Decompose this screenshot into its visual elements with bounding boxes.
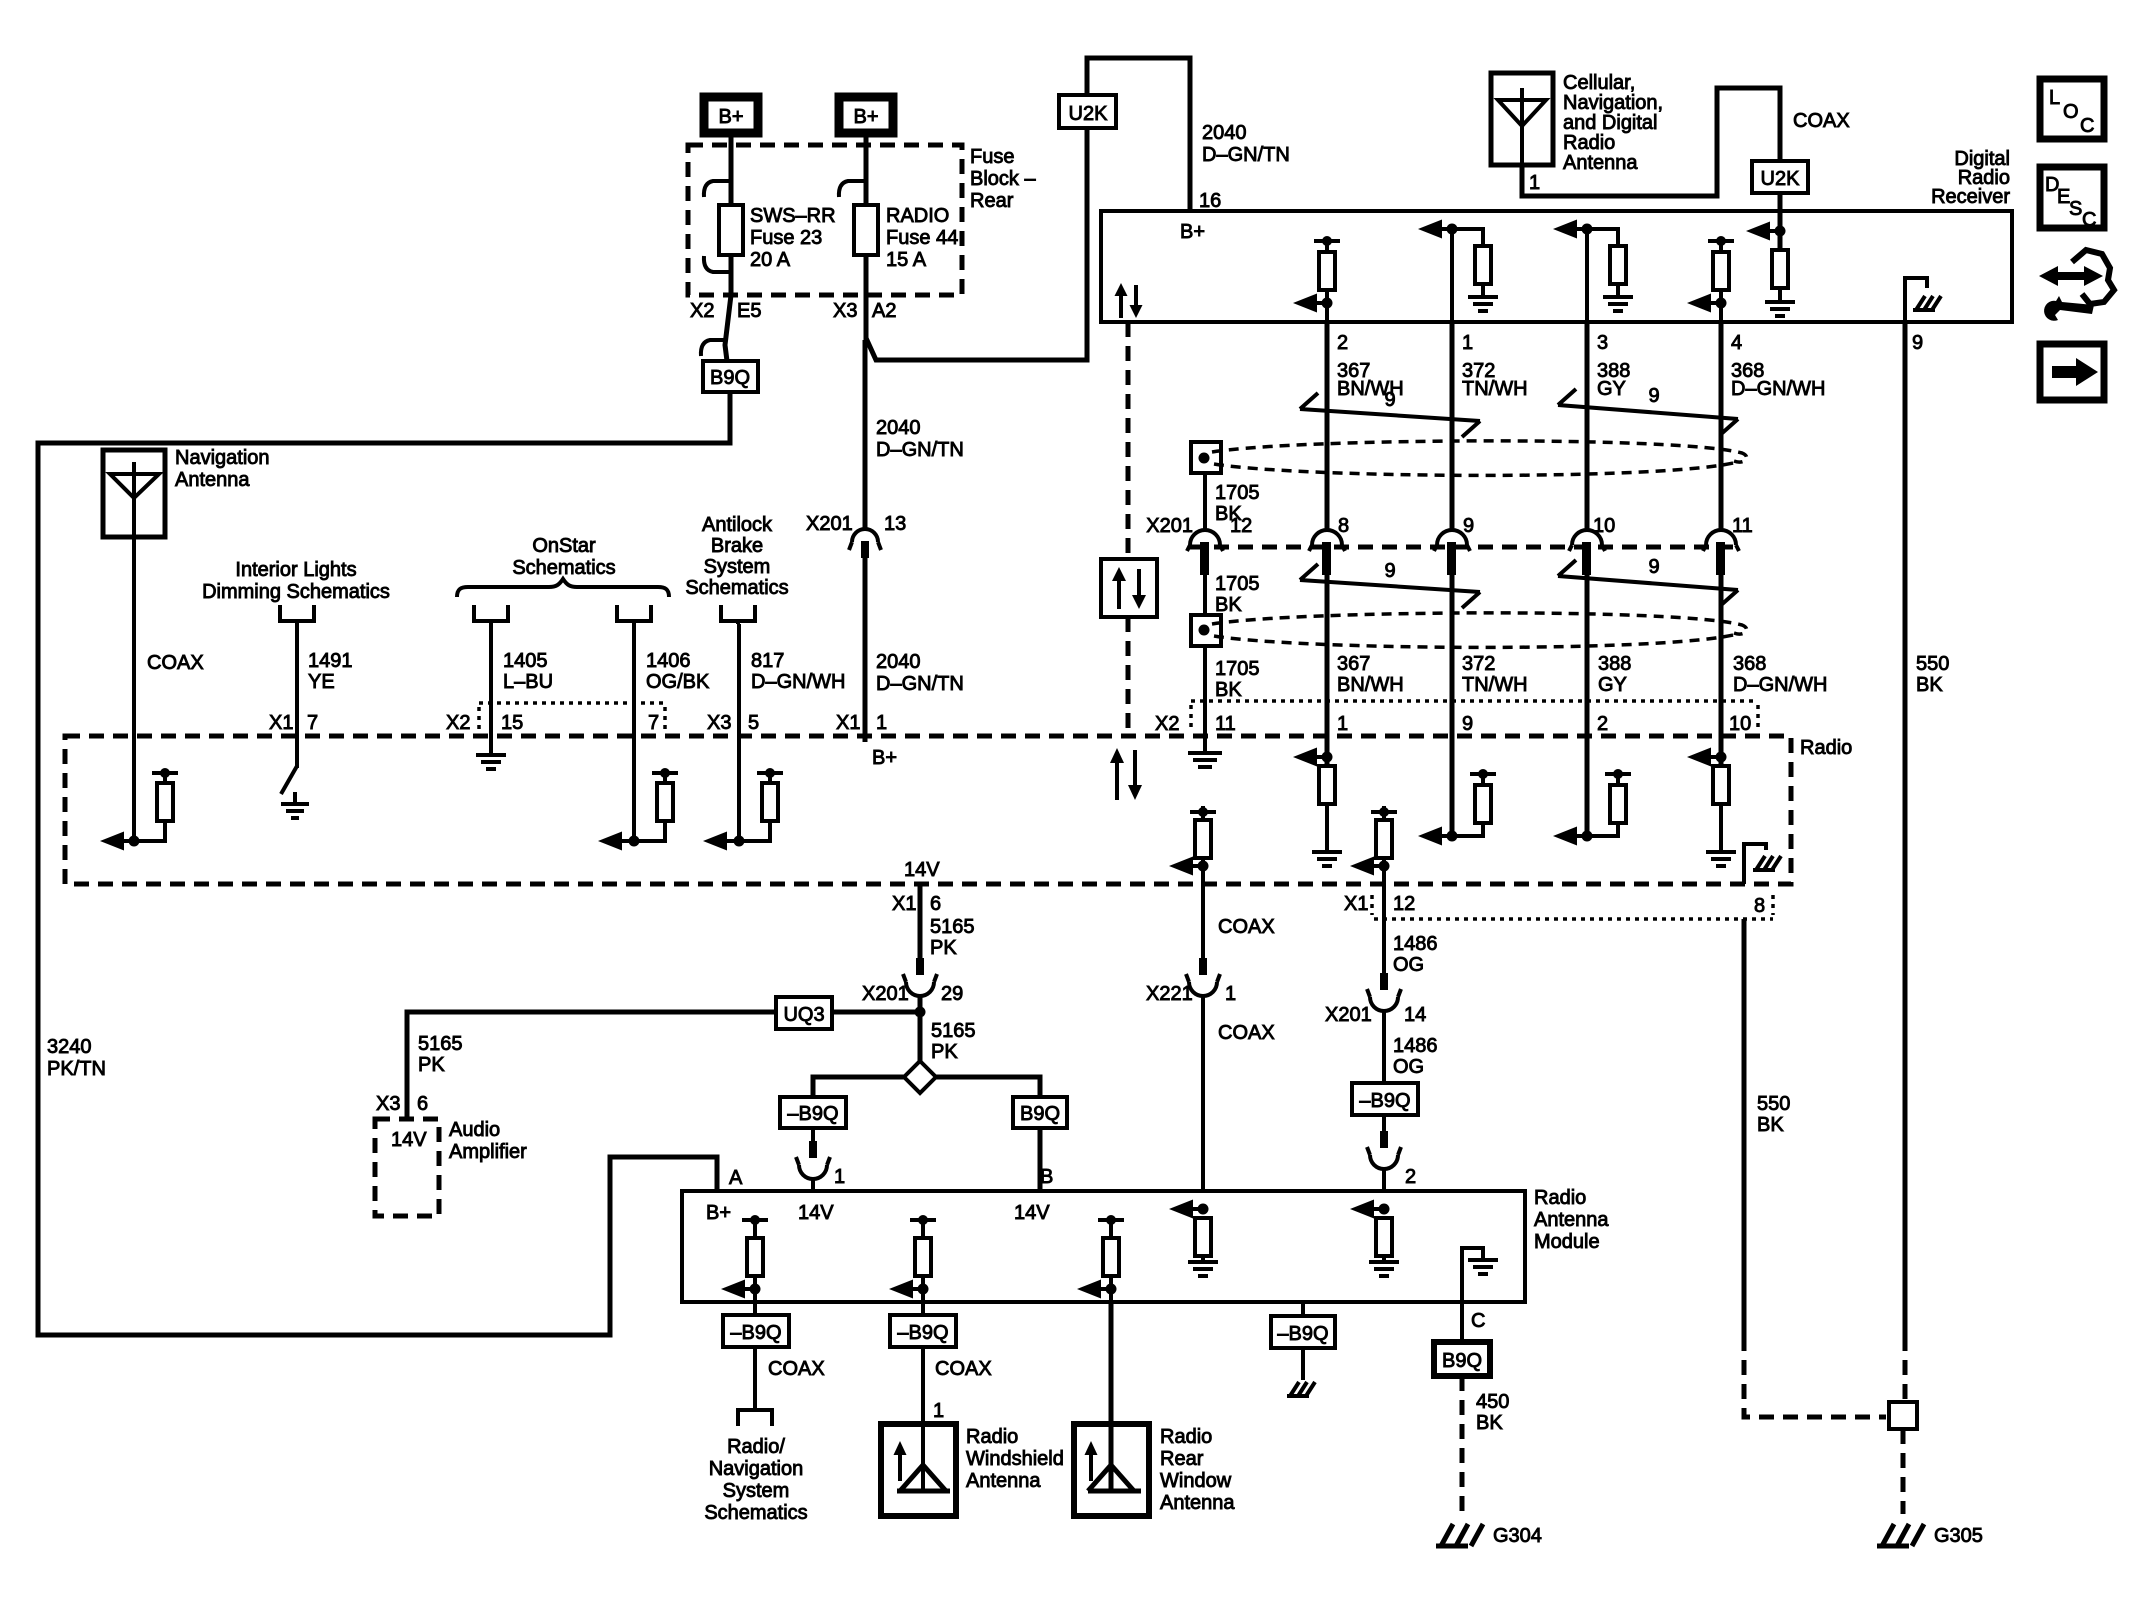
digital radio receiver label [1931, 148, 2010, 208]
receiver U2K input arrow [1746, 222, 1786, 241]
svg-text:X2: X2 [690, 300, 714, 322]
svg-text:SWS–RR: SWS–RR [750, 205, 836, 227]
wire diamond to B9Q right [936, 1077, 1040, 1097]
wire label 450 BK [1476, 1391, 1509, 1434]
svg-text:Brake: Brake [711, 535, 763, 557]
svg-text:PK/TN: PK/TN [47, 1058, 106, 1080]
connector X201 14 [1325, 973, 1426, 1026]
svg-text:GY: GY [1597, 378, 1626, 400]
radio pin 1 resistor to ground [1312, 766, 1342, 866]
wire 1705 BK shield box 2 to radio [1203, 646, 1207, 736]
svg-text:1705: 1705 [1215, 573, 1260, 595]
wire B+1 to fuse 23 [729, 133, 734, 295]
wire label 5165 PK amp [418, 1033, 463, 1076]
svg-text:1: 1 [1529, 172, 1540, 194]
wire 367 X201 to radio [1325, 573, 1330, 736]
wire label 817 D-GN/WH [751, 650, 845, 693]
wire module to rear window antenna [1109, 1302, 1114, 1489]
audio amplifier label [449, 1119, 527, 1163]
svg-text:OG: OG [1393, 1056, 1424, 1078]
wire label 1705 BK upper [1215, 482, 1260, 525]
svg-text:Antenna: Antenna [966, 1470, 1041, 1492]
svg-text:GY: GY [1598, 674, 1627, 696]
wire label 1705 BK middle [1215, 573, 1260, 616]
svg-text:TN/WH: TN/WH [1462, 378, 1528, 400]
legend double-arrow wrench icon [2039, 250, 2114, 321]
svg-text:20 A: 20 A [750, 249, 791, 271]
svg-text:Fuse: Fuse [970, 146, 1014, 168]
interior lights dimming label [202, 559, 390, 603]
wire 817 D-GN/WH [737, 624, 741, 841]
fuse clip hook top fuse 44 [839, 181, 866, 197]
svg-text:Radio: Radio [1534, 1187, 1586, 1209]
dashed wire 550 BK receiver side [1903, 1336, 1908, 1402]
receiver pin 2 resistor [1314, 236, 1340, 322]
wire 1405 L-BU [489, 624, 493, 753]
svg-text:Module: Module [1534, 1231, 1600, 1253]
svg-text:368: 368 [1733, 653, 1766, 675]
antilock brake label [685, 514, 788, 599]
svg-text:Radio/: Radio/ [727, 1436, 785, 1458]
connector X201 29 [862, 958, 963, 1005]
splice box G305 [1889, 1402, 1917, 1429]
wire pin C to B9Q [1460, 1302, 1464, 1342]
twisted pair mark bottom right [1558, 560, 1738, 606]
svg-text:System: System [704, 556, 771, 578]
svg-text:29: 29 [941, 983, 963, 1005]
svg-text:2040: 2040 [876, 651, 921, 673]
svg-text:B+: B+ [706, 1202, 731, 1224]
module resistor rear window [1077, 1215, 1124, 1302]
pin label X1 7 [269, 712, 318, 734]
connector pin 1 radio antenna module [796, 1128, 845, 1191]
wire 372 receiver to X201 [1450, 322, 1455, 531]
svg-text:12: 12 [1230, 515, 1252, 537]
svg-text:Windshield: Windshield [966, 1448, 1064, 1470]
svg-text:D–GN/TN: D–GN/TN [876, 673, 964, 695]
svg-text:1: 1 [876, 712, 887, 734]
pin label X3 6 [376, 1093, 428, 1115]
wire label 5165 PK upper [930, 916, 975, 959]
connector X201 pin 10 [1569, 515, 1615, 575]
svg-text:X201: X201 [1146, 515, 1193, 537]
radio pin 9 resistor [1418, 736, 1496, 846]
svg-text:E5: E5 [737, 300, 761, 322]
radio pin 10 resistor to ground [1706, 766, 1736, 866]
navigation antenna label [175, 447, 270, 491]
svg-text:B+: B+ [872, 747, 897, 769]
svg-text:UQ3: UQ3 [783, 1004, 824, 1026]
radio pin 1 arrow [1293, 736, 1333, 767]
wire COAX X221 in radio [1169, 806, 1216, 884]
svg-text:2: 2 [1337, 332, 1348, 354]
navigation antenna box [103, 450, 165, 537]
connector X201 pin 8 [1309, 515, 1349, 575]
cellular antenna label [1563, 72, 1663, 174]
legend DESC box [2040, 167, 2104, 231]
pin label X2 15 [446, 712, 523, 734]
svg-text:–B9Q: –B9Q [787, 1103, 838, 1125]
svg-text:Receiver: Receiver [1931, 186, 2010, 208]
svg-text:Fuse 23: Fuse 23 [750, 227, 822, 249]
fuse block label [970, 146, 1036, 212]
svg-text:X201: X201 [862, 983, 909, 1005]
svg-text:Schematics: Schematics [512, 557, 615, 579]
fuse 23 label [750, 205, 836, 271]
receiver pin 1 resistor to ground [1452, 229, 1498, 311]
svg-text:TN/WH: TN/WH [1462, 674, 1528, 696]
wire 1486 OG in radio [1350, 806, 1397, 884]
module pin 2 input arrow [1350, 1200, 1399, 1277]
wire 372 X201 to radio [1450, 573, 1455, 736]
svg-text:D–GN/TN: D–GN/TN [876, 439, 964, 461]
svg-text:9: 9 [1648, 385, 1659, 407]
svg-text:YE: YE [308, 671, 335, 693]
svg-text:2: 2 [1405, 1166, 1416, 1188]
wire B9Q to module pin B [1038, 1128, 1043, 1191]
receiver U2K input resistor to ground [1765, 231, 1795, 316]
svg-text:D–GN/WH: D–GN/WH [1733, 674, 1827, 696]
updown arrows receiver [1115, 283, 1143, 318]
svg-text:A2: A2 [872, 300, 896, 322]
svg-text:and Digital: and Digital [1563, 112, 1658, 134]
svg-text:367: 367 [1337, 653, 1370, 675]
wire label 2040 D-GN/TN top [1202, 122, 1290, 166]
wire label 1705 BK lower [1215, 658, 1260, 701]
svg-text:A: A [729, 1167, 743, 1189]
splice diamond [904, 1061, 936, 1093]
wire label 550 BK left [1757, 1093, 1790, 1136]
svg-text:D–GN/WH: D–GN/WH [751, 671, 845, 693]
svg-text:3240: 3240 [47, 1036, 92, 1058]
svg-text:B+: B+ [718, 106, 743, 128]
wire label 1491 YE [308, 650, 353, 693]
svg-text:1: 1 [834, 1166, 845, 1188]
svg-text:PK: PK [931, 1041, 958, 1063]
svg-text:O: O [2063, 101, 2079, 123]
dashed wire splice to G305 [1901, 1429, 1906, 1514]
svg-text:14V: 14V [1014, 1202, 1050, 1224]
wire 1486 OG radio to X201 [1382, 884, 1386, 973]
svg-text:13: 13 [884, 513, 906, 535]
resistor 1406 branch [634, 768, 678, 841]
svg-text:450: 450 [1476, 1391, 1509, 1413]
svg-text:Fuse 44: Fuse 44 [886, 227, 958, 249]
svg-text:9: 9 [1384, 389, 1395, 411]
clip hook below X2 E5 [701, 340, 726, 356]
svg-text:COAX: COAX [768, 1358, 825, 1380]
svg-text:Window: Window [1160, 1470, 1232, 1492]
radio pin 8 chassis ground [1744, 844, 1781, 884]
wire 368 X201 to radio [1719, 573, 1724, 736]
svg-text:Schematics: Schematics [704, 1502, 807, 1524]
svg-text:1: 1 [1337, 713, 1348, 735]
connector line X201 [1190, 545, 1740, 550]
svg-text:BK: BK [1476, 1412, 1503, 1434]
svg-text:11: 11 [1732, 515, 1753, 537]
connector pin 2 module [1367, 1115, 1416, 1191]
svg-text:–B9Q: –B9Q [1359, 1090, 1410, 1112]
audio amplifier dashed box [375, 1119, 439, 1216]
OnStar schematics label [512, 535, 615, 579]
svg-text:550: 550 [1916, 653, 1949, 675]
wire U2K to receiver pin 16 [1087, 58, 1190, 211]
svg-text:Radio: Radio [1563, 132, 1615, 154]
connector U2K [1059, 95, 1116, 128]
svg-text:B+: B+ [853, 106, 878, 128]
wire 1705 BK X201 to shield box 2 [1203, 573, 1207, 615]
svg-text:Navigation: Navigation [709, 1458, 804, 1480]
module resistor windshield [889, 1215, 936, 1302]
svg-text:B: B [1040, 1166, 1053, 1188]
svg-text:COAX: COAX [935, 1358, 992, 1380]
wire COAX X221 radio to module [1201, 884, 1205, 958]
node UQ3 junction [915, 1007, 926, 1018]
svg-text:9: 9 [1384, 560, 1395, 582]
connector -B9Q windshield [890, 1315, 956, 1347]
svg-text:Antenna: Antenna [1563, 152, 1638, 174]
wire diamond to -B9Q left [813, 1077, 904, 1097]
ground 1405 [476, 755, 506, 769]
wire 550 BK receiver pin 9 [1903, 322, 1908, 1336]
svg-text:X1: X1 [1344, 893, 1368, 915]
wire X201 14 to -B9Q [1382, 1011, 1386, 1083]
wire -B9Q to windshield antenna [921, 1347, 925, 1489]
connector U2K 2 [1752, 161, 1808, 193]
wire U2K into receiver [1778, 193, 1783, 250]
svg-text:Navigation,: Navigation, [1563, 92, 1663, 114]
radio windshield antenna box [881, 1424, 956, 1516]
svg-text:8: 8 [1338, 515, 1349, 537]
wire 1491 YE [295, 624, 299, 768]
connector -B9Q left [780, 1097, 846, 1128]
svg-text:X1: X1 [836, 712, 860, 734]
svg-text:C: C [2082, 209, 2096, 231]
svg-text:4: 4 [1731, 332, 1742, 354]
connector B9Q 450 [1434, 1342, 1490, 1376]
wire nav antenna coax [132, 537, 136, 841]
connector -B9Q 1486 [1352, 1083, 1418, 1115]
svg-text:System: System [723, 1480, 790, 1502]
schematic ref bracket 1406 [617, 605, 651, 624]
svg-text:7: 7 [648, 712, 659, 734]
wire label 1486 OG lower [1393, 1035, 1438, 1078]
chassis ground below -B9Q [1287, 1348, 1315, 1396]
wire 367 receiver to X201 [1325, 322, 1330, 531]
svg-text:OnStar: OnStar [532, 535, 596, 557]
svg-text:1405: 1405 [503, 650, 548, 672]
B+ power box 1 [704, 97, 758, 133]
radio rear window antenna box [1074, 1424, 1149, 1516]
module pin C ground [1462, 1248, 1498, 1302]
radio pin 2 resistor [1553, 736, 1631, 846]
svg-text:1705: 1705 [1215, 658, 1260, 680]
wire fuse44 branch to U2K [866, 128, 1087, 360]
svg-text:6: 6 [417, 1093, 428, 1115]
svg-text:Antenna: Antenna [1160, 1492, 1235, 1514]
ground 1705 in radio [1188, 736, 1222, 767]
schematic ref bracket interior lights [280, 605, 314, 624]
svg-text:14V: 14V [904, 859, 940, 881]
connector dotted bracket X2 radio [1191, 701, 1758, 730]
svg-text:D–GN/TN: D–GN/TN [1202, 144, 1290, 166]
receiver wire labels [1337, 360, 1825, 400]
svg-text:–B9Q: –B9Q [1277, 1323, 1328, 1345]
resistor 817 branch [739, 768, 783, 841]
svg-text:2040: 2040 [876, 417, 921, 439]
svg-text:Antenna: Antenna [1534, 1209, 1609, 1231]
svg-text:B+: B+ [1180, 221, 1205, 243]
receiver pin 2 arrow [1293, 294, 1333, 313]
svg-text:Antilock: Antilock [702, 514, 773, 536]
wire module to -B9Q windshield [921, 1302, 925, 1315]
fuse clip hook top fuse 23 [704, 181, 731, 197]
radio antenna module box [682, 1191, 1525, 1302]
svg-text:–B9Q: –B9Q [897, 1322, 948, 1344]
fuse RADIO Fuse 44 [854, 205, 878, 255]
svg-text:X3: X3 [707, 712, 731, 734]
module coax input arrow [1169, 1200, 1218, 1277]
fuse clip hook bottom fuse 23 [704, 256, 731, 272]
svg-text:12: 12 [1393, 893, 1415, 915]
svg-text:388: 388 [1598, 653, 1631, 675]
svg-text:X1: X1 [269, 712, 293, 734]
connector dotted bracket X1 radio [1372, 895, 1773, 919]
svg-text:10: 10 [1593, 515, 1615, 537]
svg-text:Radio: Radio [966, 1426, 1018, 1448]
svg-text:BK: BK [1757, 1114, 1784, 1136]
radio antenna module label [1534, 1187, 1609, 1253]
wire label 2040 D-GN/TN lower [876, 651, 964, 695]
connector X201 pin 12 [1187, 515, 1252, 575]
wire B9Q down to left bus [38, 392, 730, 1335]
svg-text:X201: X201 [1325, 1004, 1372, 1026]
svg-text:9: 9 [1463, 515, 1474, 537]
svg-text:B9Q: B9Q [1442, 1350, 1482, 1372]
wire -B9Q nav to ref [753, 1347, 757, 1408]
shield box 2 [1191, 615, 1221, 646]
svg-text:9: 9 [1648, 556, 1659, 578]
svg-text:5165: 5165 [930, 916, 975, 938]
svg-text:Cellular,: Cellular, [1563, 72, 1635, 94]
svg-text:1: 1 [933, 1400, 944, 1422]
legend right-arrow box [2040, 344, 2104, 400]
receiver pin 4 arrow [1687, 294, 1727, 313]
svg-text:Rear: Rear [1160, 1448, 1204, 1470]
svg-text:16: 16 [1199, 190, 1221, 212]
wire 550 BK radio pin 8 [1742, 919, 1747, 1336]
receiver pin 1 arrow [1418, 220, 1458, 323]
wire cellular coax to U2K [1522, 88, 1780, 196]
node arrow 817 [703, 832, 745, 851]
svg-text:–B9Q: –B9Q [730, 1322, 781, 1344]
wire color labels above radio [1337, 653, 1827, 696]
dashed wire B9Q to G304 [1460, 1376, 1465, 1514]
svg-text:C: C [1471, 1310, 1485, 1332]
wire 368 receiver to X201 [1719, 322, 1724, 531]
cellular navigation antenna box [1491, 73, 1553, 165]
svg-text:14V: 14V [391, 1129, 427, 1151]
pin label X3 5 [707, 712, 759, 734]
module resistor pin 1 [721, 1215, 768, 1302]
shield box 1 [1191, 442, 1221, 473]
svg-text:X3: X3 [833, 300, 857, 322]
wire 1705 BK shield to X201 [1203, 473, 1207, 531]
svg-text:7: 7 [307, 712, 318, 734]
schematic ref bracket 1405 [474, 605, 508, 624]
svg-text:D–GN/WH: D–GN/WH [1731, 378, 1825, 400]
fuse SWS-RR Fuse 23 [719, 205, 743, 255]
wire label 1406 OG/BK [646, 650, 710, 693]
svg-text:COAX: COAX [1218, 1022, 1275, 1044]
ground G305 [1877, 1524, 1983, 1547]
pin label X1 12 [1344, 893, 1415, 915]
svg-text:Block –: Block – [970, 168, 1036, 190]
brace OnStar [457, 579, 669, 597]
connector X201 pin 9 [1434, 515, 1474, 575]
connector X221 1 [1146, 958, 1236, 1005]
svg-text:B9Q: B9Q [1020, 1103, 1060, 1125]
svg-text:X2: X2 [1155, 713, 1179, 735]
svg-text:9: 9 [1462, 713, 1473, 735]
svg-text:Navigation: Navigation [175, 447, 270, 469]
svg-text:PK: PK [930, 937, 957, 959]
receiver pin labels [1337, 332, 1923, 354]
wire UQ3 to amplifier [407, 1012, 776, 1119]
wire UQ3 box to junction [832, 1010, 920, 1015]
svg-text:5: 5 [748, 712, 759, 734]
svg-text:G305: G305 [1934, 1525, 1983, 1547]
svg-text:10: 10 [1729, 713, 1751, 735]
pin label X1 1 [836, 712, 887, 734]
digital radio receiver box [1101, 211, 2012, 322]
svg-text:1705: 1705 [1215, 482, 1260, 504]
dashed wire 550 BK to splice [1744, 1336, 1886, 1417]
svg-text:S: S [2069, 198, 2082, 220]
receiver pin 3 arrow [1553, 220, 1593, 323]
ground G304 [1436, 1524, 1542, 1547]
svg-text:Amplifier: Amplifier [449, 1141, 527, 1163]
pin label X1 6 [892, 893, 941, 915]
svg-text:X3: X3 [376, 1093, 400, 1115]
wire X221 to module [1201, 996, 1205, 1191]
svg-text:BK: BK [1215, 679, 1242, 701]
B+ power box 2 [839, 97, 893, 133]
svg-text:BN/WH: BN/WH [1337, 674, 1404, 696]
svg-text:15: 15 [501, 712, 523, 734]
svg-text:550: 550 [1757, 1093, 1790, 1115]
wire 2040 to radio X1 1 [863, 558, 868, 742]
connector -B9Q ground [1271, 1316, 1335, 1348]
svg-text:2040: 2040 [1202, 122, 1247, 144]
svg-text:Antenna: Antenna [175, 469, 250, 491]
svg-text:L: L [2049, 87, 2060, 109]
svg-text:5165: 5165 [418, 1033, 463, 1055]
schematic ref bracket radio nav [738, 1407, 772, 1426]
svg-text:G304: G304 [1493, 1525, 1542, 1547]
pin labels X2 row [1155, 713, 1751, 735]
svg-text:Radio: Radio [1800, 737, 1852, 759]
wire module to -B9Q nav [753, 1302, 757, 1315]
connector UQ3 [776, 997, 832, 1029]
svg-text:9: 9 [1912, 332, 1923, 354]
twisted pair mark top right [1558, 389, 1738, 435]
receiver pin 3 resistor to ground [1587, 229, 1633, 311]
svg-text:3: 3 [1597, 332, 1608, 354]
svg-text:1: 1 [1462, 332, 1473, 354]
svg-text:X221: X221 [1146, 983, 1193, 1005]
shield dashed loop 1 [1212, 441, 1747, 476]
